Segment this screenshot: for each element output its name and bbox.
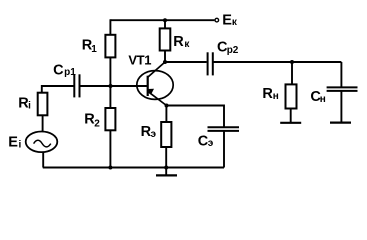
node rail ground junction [164, 166, 168, 170]
wire emitter node to Ce branch [167, 106, 225, 128]
wire Rk top lead [164, 19, 166, 28]
svg-text:к: к [184, 39, 190, 50]
wire Ei bottom lead [42, 152, 44, 168]
label Rn [262, 86, 278, 102]
wire Re top lead [165, 106, 167, 123]
resistor R1 [105, 35, 115, 58]
wire R2 bottom lead [109, 130, 111, 167]
node output Rn junction [290, 60, 294, 64]
wire Ce bottom lead [223, 131, 225, 168]
wire Rk bottom lead [164, 51, 166, 63]
node collector junction [163, 60, 167, 64]
label Ri [18, 95, 31, 111]
label Rk [173, 34, 190, 50]
resistor Ri [38, 93, 48, 116]
svg-text:н: н [320, 94, 326, 105]
wire Re bottom lead [165, 147, 167, 175]
svg-text:э: э [151, 129, 157, 140]
resistor Rn [286, 84, 297, 108]
svg-text:э: э [208, 138, 214, 149]
wire Rn bottom lead [290, 109, 292, 123]
svg-text:Е: Е [8, 135, 18, 151]
svg-text:2: 2 [94, 118, 100, 129]
resistor Rk [160, 28, 171, 50]
wire collector to Cp2 [164, 61, 207, 63]
svg-text:i: i [19, 139, 22, 150]
node top rail junction [163, 18, 167, 22]
label R1 [82, 38, 98, 55]
svg-text:С: С [53, 62, 64, 78]
node rail R2 junction [108, 166, 112, 170]
wire output [213, 61, 342, 63]
wire Cn top lead [340, 62, 342, 87]
svg-text:R: R [262, 86, 273, 102]
resistor Re [161, 122, 171, 147]
capacitor Cp1 [74, 74, 79, 97]
svg-text:i: i [28, 101, 31, 112]
svg-text:р2: р2 [227, 45, 239, 56]
transistor VT1 [137, 62, 173, 106]
svg-text:к: к [232, 17, 238, 28]
terminal bar Cn [330, 121, 351, 123]
resistor R2 [105, 108, 115, 130]
svg-text:Е: Е [222, 12, 232, 28]
wire top rail [110, 19, 214, 21]
wire Ri to Ei [42, 115, 44, 132]
wire R1 top lead [109, 19, 111, 35]
wire bottom rail [43, 167, 224, 169]
node emitter junction [165, 104, 169, 108]
label Ei [8, 135, 21, 151]
capacitor Cp2 [208, 52, 213, 75]
label Cp1 [53, 62, 76, 78]
wire input corner to Cp1 [42, 86, 74, 93]
terminal Ek open circle [215, 18, 219, 22]
svg-text:R: R [173, 34, 184, 50]
label Cn [310, 89, 325, 105]
label R2 [84, 111, 100, 129]
wire Cn bottom lead [340, 91, 342, 123]
terminal bar Rn [280, 122, 301, 124]
source Ei [26, 132, 58, 153]
ground [156, 174, 177, 176]
svg-text:р1: р1 [64, 67, 76, 78]
wire R1-R2 link [109, 57, 111, 108]
label Ce [198, 134, 214, 150]
capacitor Ce [208, 127, 240, 131]
capacitor Cn [327, 87, 358, 91]
wire Rn top lead [291, 62, 293, 84]
svg-text:1: 1 [91, 44, 97, 55]
svg-text:н: н [273, 91, 279, 102]
label Re [141, 124, 157, 140]
svg-text:VT1: VT1 [128, 52, 151, 67]
label Ek [222, 12, 238, 28]
label Cp2 [217, 39, 239, 56]
wire base [80, 85, 148, 87]
node base junction [109, 84, 113, 88]
